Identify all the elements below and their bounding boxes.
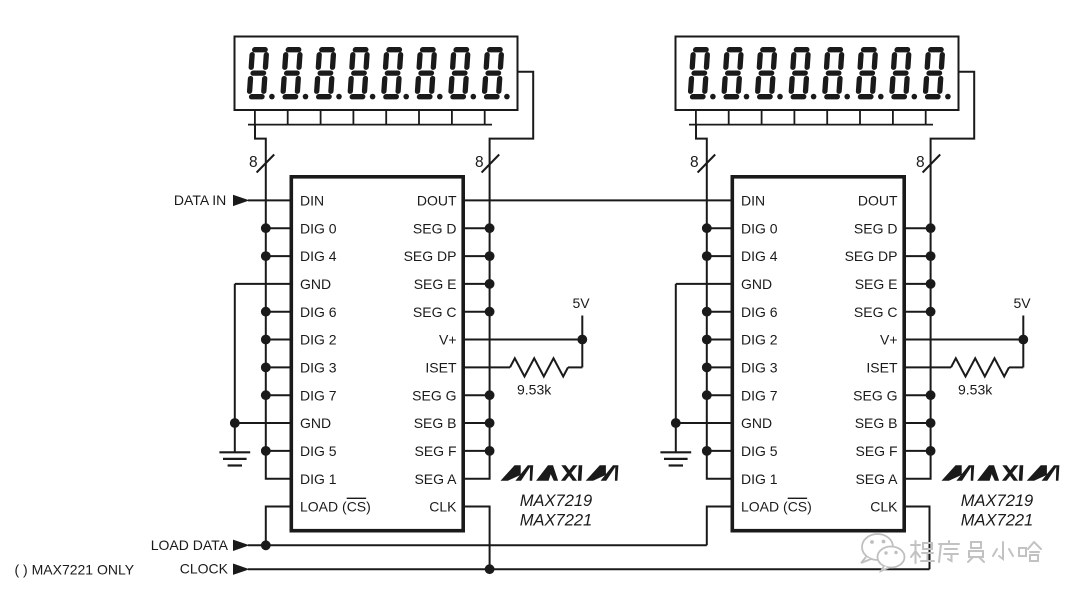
svg-text:DIN: DIN: [300, 193, 324, 209]
MAXIM logo of U1: [501, 465, 619, 481]
wire SEG F pin stub of U2: [904, 450, 931, 452]
junction dot DIG 6 on DIG bus of U2: [702, 307, 712, 317]
svg-text:SEG B: SEG B: [855, 415, 898, 431]
decimal point dp5 of DS1: [403, 94, 409, 100]
svg-text:MAX7221: MAX7221: [520, 511, 592, 529]
svg-text:DIG 7: DIG 7: [300, 387, 337, 403]
junction dot SEG E on SEG bus of U1: [485, 279, 495, 289]
svg-text:5V: 5V: [1013, 295, 1031, 311]
svg-text:DIG 5: DIG 5: [741, 443, 778, 459]
wire DIG 4 pin stub of U1: [266, 255, 292, 257]
decimal point dp4 of DS2: [811, 94, 817, 100]
junction dot LOAD DATA to U1 LOAD: [261, 540, 271, 550]
wire DIG 2 pin stub of U2: [707, 339, 733, 341]
digit 2 of DS1: [283, 50, 300, 97]
decimal point dp4 of DS1: [370, 94, 376, 100]
svg-text:LOAD (CS): LOAD (CS): [300, 499, 371, 515]
wire V+ wire of U2: [904, 339, 1023, 341]
svg-text:SEG DP: SEG DP: [845, 248, 898, 264]
svg-text:SEG E: SEG E: [414, 276, 457, 292]
wire wire GND junction to ground symbol 2: [675, 423, 677, 452]
wire DIG 5 pin stub of U1: [266, 450, 292, 452]
svg-text:SEG D: SEG D: [854, 220, 898, 236]
ground symbol GND2: [660, 452, 691, 465]
junction dot DIG 3 on DIG bus of U1: [261, 363, 271, 373]
svg-text:DIG 7: DIG 7: [741, 387, 778, 403]
svg-text:CLOCK: CLOCK: [180, 561, 229, 577]
wire CLOCK line: [248, 568, 930, 570]
junction dot DIG 5 on DIG bus of U1: [261, 446, 271, 456]
IC U2 MAX7219/MAX7221 LED display driver body: [732, 177, 904, 531]
svg-text:DIG 3: DIG 3: [300, 360, 337, 376]
wire DIG 3 pin stub of U2: [707, 366, 733, 368]
wire SEG G pin stub of U1: [463, 394, 490, 396]
svg-text:MAX7221: MAX7221: [961, 511, 1033, 529]
svg-text:LOAD DATA: LOAD DATA: [151, 537, 229, 553]
wire DIG 0 pin stub of U2: [707, 227, 733, 229]
junction dot SEG E on SEG bus of U2: [926, 279, 936, 289]
wire GND pin 4 wire of U1: [235, 283, 292, 285]
junction dot DIG 7 on DIG bus of U2: [702, 390, 712, 400]
wire SEG B pin stub of U2: [904, 422, 931, 424]
decimal point dp2 of DS2: [744, 94, 750, 100]
junction dot DIG 0 on DIG bus of U1: [261, 223, 271, 233]
wire CLOCK line up to CLK of U2: [904, 507, 930, 570]
svg-text:DIN: DIN: [741, 193, 765, 209]
svg-text:8: 8: [249, 154, 258, 171]
decimal point dp1 of DS1: [269, 94, 275, 100]
wire DIG 5 pin stub of U2: [707, 450, 733, 452]
decimal point dp7 of DS1: [471, 94, 477, 100]
svg-text:DOUT: DOUT: [858, 193, 898, 209]
svg-text:MAX7219: MAX7219: [961, 492, 1033, 510]
wire GND pin 9 wire of U1: [235, 422, 292, 424]
digit 6 of DS2: [858, 50, 875, 97]
junction dot V+ node of U1: [577, 335, 587, 345]
ground symbol GND1: [219, 452, 250, 465]
decimal point dp1 of DS2: [710, 94, 716, 100]
svg-text:DIG 1: DIG 1: [741, 471, 778, 487]
wire DIG bus from DS2 to U2 DIG pins: [696, 125, 733, 479]
svg-text:( ) MAX7221 ONLY: ( ) MAX7221 ONLY: [15, 562, 135, 578]
digit 6 of DS1: [417, 50, 434, 97]
digit 3 of DS1: [316, 50, 333, 97]
junction dot SEG F on SEG bus of U1: [485, 446, 495, 456]
junction dot CLOCK to U1 CLK: [485, 564, 495, 574]
digit 8 of DS2: [925, 50, 942, 97]
bus slash mark SEG bus of U1: [482, 155, 500, 173]
resistor R2 9.53k: [951, 358, 1009, 376]
svg-text:SEG B: SEG B: [414, 415, 457, 431]
svg-text:DOUT: DOUT: [417, 193, 457, 209]
input arrow DATA IN: [233, 195, 250, 206]
wire ISET wire of U2: [904, 366, 951, 368]
svg-text:SEG C: SEG C: [413, 304, 457, 320]
bus slash mark DIG bus of U1: [257, 155, 275, 173]
wire wire resistor R2 to V+ node: [1009, 366, 1023, 368]
wire SEG G pin stub of U2: [904, 394, 931, 396]
display DS2 8-digit 7-segment module: [676, 37, 959, 111]
junction dot SEG DP on SEG bus of U1: [485, 251, 495, 261]
junction dot SEG B on SEG bus of U2: [926, 418, 936, 428]
wire 5V supply stub of U1: [581, 316, 583, 340]
junction dot SEG F on SEG bus of U2: [926, 446, 936, 456]
junction dot DIG 4 on DIG bus of U2: [702, 251, 712, 261]
decimal point dp3 of DS1: [336, 94, 342, 100]
wire DIG 4 pin stub of U2: [707, 255, 733, 257]
digit 7 of DS2: [892, 50, 909, 97]
svg-text:DIG 3: DIG 3: [741, 360, 778, 376]
junction dot SEG G on SEG bus of U2: [926, 390, 936, 400]
svg-text:CLK: CLK: [870, 499, 898, 515]
svg-text:SEG A: SEG A: [414, 471, 457, 487]
svg-text:DIG 2: DIG 2: [741, 332, 778, 348]
IC U1 MAX7219/MAX7221 LED display driver body: [291, 177, 463, 531]
wire SEG D pin stub of U2: [904, 227, 931, 229]
svg-text:DIG 0: DIG 0: [300, 220, 337, 236]
junction dot SEG G on SEG bus of U1: [485, 390, 495, 400]
wire LOAD DATA line up to LOAD(CS) of U2: [707, 507, 733, 546]
wire SEG F pin stub of U1: [463, 450, 490, 452]
svg-text:DIG 5: DIG 5: [300, 443, 337, 459]
svg-text:8: 8: [690, 154, 699, 171]
digit 7 of DS1: [451, 50, 468, 97]
wire DIG 6 pin stub of U2: [707, 311, 733, 313]
bus slash mark SEG bus of U2: [923, 155, 941, 173]
junction dot DIG 5 on DIG bus of U2: [702, 446, 712, 456]
wire DIG 6 pin stub of U1: [266, 311, 292, 313]
digit 3 of DS2: [757, 50, 774, 97]
wire LOAD(CS) of U1 down to LOAD DATA line: [266, 507, 292, 546]
wire GND vertical wire of U1: [234, 284, 236, 423]
decimal point dp6 of DS1: [437, 94, 443, 100]
junction dot SEG C on SEG bus of U1: [485, 307, 495, 317]
junction dot V+ node of U2: [1018, 335, 1028, 345]
junction dot DIG 0 on DIG bus of U2: [702, 223, 712, 233]
wire 5V supply stub of U2: [1022, 316, 1024, 340]
svg-text:V+: V+: [880, 332, 898, 348]
wire DIG bus from DS1 to U1 DIG pins: [255, 125, 292, 479]
decimal point dp6 of DS2: [878, 94, 884, 100]
svg-text:ISET: ISET: [425, 360, 457, 376]
digit 5 of DS1: [384, 50, 401, 97]
wire GND pin 9 wire of U2: [676, 422, 733, 424]
svg-text:SEG F: SEG F: [414, 443, 456, 459]
svg-text:8: 8: [475, 154, 484, 171]
svg-text:8: 8: [916, 154, 925, 171]
wire SEG C pin stub of U2: [904, 311, 931, 313]
watermark logo chat bubbles: [861, 534, 905, 571]
wire V+ wire of U1: [463, 339, 582, 341]
decimal point dp8 of DS2: [945, 94, 951, 100]
svg-text:V+: V+: [439, 332, 457, 348]
junction dot DIG 2 on DIG bus of U2: [702, 335, 712, 345]
svg-text:DIG 4: DIG 4: [741, 248, 778, 264]
wire wire R2 up to V+ node of U2: [1022, 340, 1024, 368]
junction dot DIG 6 on DIG bus of U1: [261, 307, 271, 317]
MAXIM logo of U2: [942, 465, 1060, 481]
svg-text:SEG G: SEG G: [853, 387, 897, 403]
svg-text:CLK: CLK: [429, 499, 457, 515]
wire SEG bus from DS2 to U2 SEG pins: [904, 72, 974, 479]
wire wire GND junction to ground symbol 1: [234, 423, 236, 452]
svg-text:SEG DP: SEG DP: [404, 248, 457, 264]
wire GND pin 4 wire of U2: [676, 283, 733, 285]
wire SEG bus from DS1 to U1 SEG pins: [463, 72, 533, 479]
wire SEG B pin stub of U1: [463, 422, 490, 424]
wire DIG 7 pin stub of U1: [266, 394, 292, 396]
svg-text:DIG 0: DIG 0: [741, 220, 778, 236]
junction dot DIG 3 on DIG bus of U2: [702, 363, 712, 373]
svg-text:SEG D: SEG D: [413, 220, 457, 236]
wire SEG E pin stub of U1: [463, 283, 490, 285]
svg-text:DIG 6: DIG 6: [741, 304, 778, 320]
input arrow LOAD DATA: [233, 540, 250, 551]
svg-text:5V: 5V: [572, 295, 590, 311]
digit 4 of DS2: [791, 50, 808, 97]
wire wire resistor R1 to V+ node: [568, 366, 582, 368]
junction dot SEG D on SEG bus of U1: [485, 223, 495, 233]
svg-text:GND: GND: [300, 276, 331, 292]
svg-text:DIG 6: DIG 6: [300, 304, 337, 320]
wire DIG 7 pin stub of U2: [707, 394, 733, 396]
input arrow CLOCK: [233, 564, 250, 575]
svg-text:SEG E: SEG E: [855, 276, 898, 292]
wire SEG C pin stub of U1: [463, 311, 490, 313]
junction dot SEG C on SEG bus of U2: [926, 307, 936, 317]
svg-text:GND: GND: [741, 276, 772, 292]
wire SEG DP pin stub of U1: [463, 255, 490, 257]
wire ISET wire of U1: [463, 366, 510, 368]
decimal point dp7 of DS2: [912, 94, 918, 100]
connector pins row of DS1: [248, 110, 492, 125]
svg-text:SEG C: SEG C: [854, 304, 898, 320]
wire wire R1 up to V+ node of U1: [581, 340, 583, 368]
svg-text:SEG F: SEG F: [855, 443, 897, 459]
digit 8 of DS1: [484, 50, 501, 97]
wire DIG 3 pin stub of U1: [266, 366, 292, 368]
svg-text:9.53k: 9.53k: [517, 382, 552, 398]
digit 5 of DS2: [825, 50, 842, 97]
wire DIG 2 pin stub of U1: [266, 339, 292, 341]
svg-text:GND: GND: [300, 415, 331, 431]
junction dot GND junction of U2: [671, 418, 681, 428]
svg-text:DIG 4: DIG 4: [300, 248, 337, 264]
digit 4 of DS1: [350, 50, 367, 97]
wire SEG DP pin stub of U2: [904, 255, 931, 257]
digit 1 of DS1: [249, 50, 266, 97]
digit 1 of DS2: [690, 50, 707, 97]
wire SEG D pin stub of U1: [463, 227, 490, 229]
junction dot DIG 2 on DIG bus of U1: [261, 335, 271, 345]
wire SEG E pin stub of U2: [904, 283, 931, 285]
svg-text:GND: GND: [741, 415, 772, 431]
junction dot SEG D on SEG bus of U2: [926, 223, 936, 233]
junction dot GND junction of U1: [230, 418, 240, 428]
junction dot SEG DP on SEG bus of U2: [926, 251, 936, 261]
watermark text 程序员小哈: [911, 541, 1041, 563]
svg-text:9.53k: 9.53k: [958, 382, 993, 398]
svg-text:DATA IN: DATA IN: [174, 192, 226, 208]
display DS1 8-digit 7-segment module: [235, 37, 518, 111]
junction dot DIG 4 on DIG bus of U1: [261, 251, 271, 261]
wire CLK of U1 down to CLOCK line: [463, 507, 490, 570]
junction dot DIG 7 on DIG bus of U1: [261, 390, 271, 400]
wire DOUT of U1 to DIN of U2: [463, 199, 733, 201]
decimal point dp8 of DS1: [504, 94, 510, 100]
resistor R1 9.53k: [510, 358, 568, 376]
decimal point dp5 of DS2: [844, 94, 850, 100]
svg-text:MAX7219: MAX7219: [520, 492, 592, 510]
wire GND vertical wire of U2: [675, 284, 677, 423]
svg-text:SEG A: SEG A: [855, 471, 898, 487]
wire LOAD DATA line: [248, 544, 707, 546]
svg-text:DIG 2: DIG 2: [300, 332, 337, 348]
digit 2 of DS2: [724, 50, 741, 97]
svg-text:SEG G: SEG G: [412, 387, 456, 403]
svg-text:ISET: ISET: [866, 360, 898, 376]
wire DATA IN to DIN of U1: [248, 199, 292, 201]
bus slash mark DIG bus of U2: [698, 155, 716, 173]
svg-text:LOAD (CS): LOAD (CS): [741, 499, 812, 515]
decimal point dp2 of DS1: [303, 94, 309, 100]
wire DIG 0 pin stub of U1: [266, 227, 292, 229]
decimal point dp3 of DS2: [777, 94, 783, 100]
connector pins row of DS2: [689, 110, 933, 125]
svg-text:DIG 1: DIG 1: [300, 471, 337, 487]
junction dot SEG B on SEG bus of U1: [485, 418, 495, 428]
